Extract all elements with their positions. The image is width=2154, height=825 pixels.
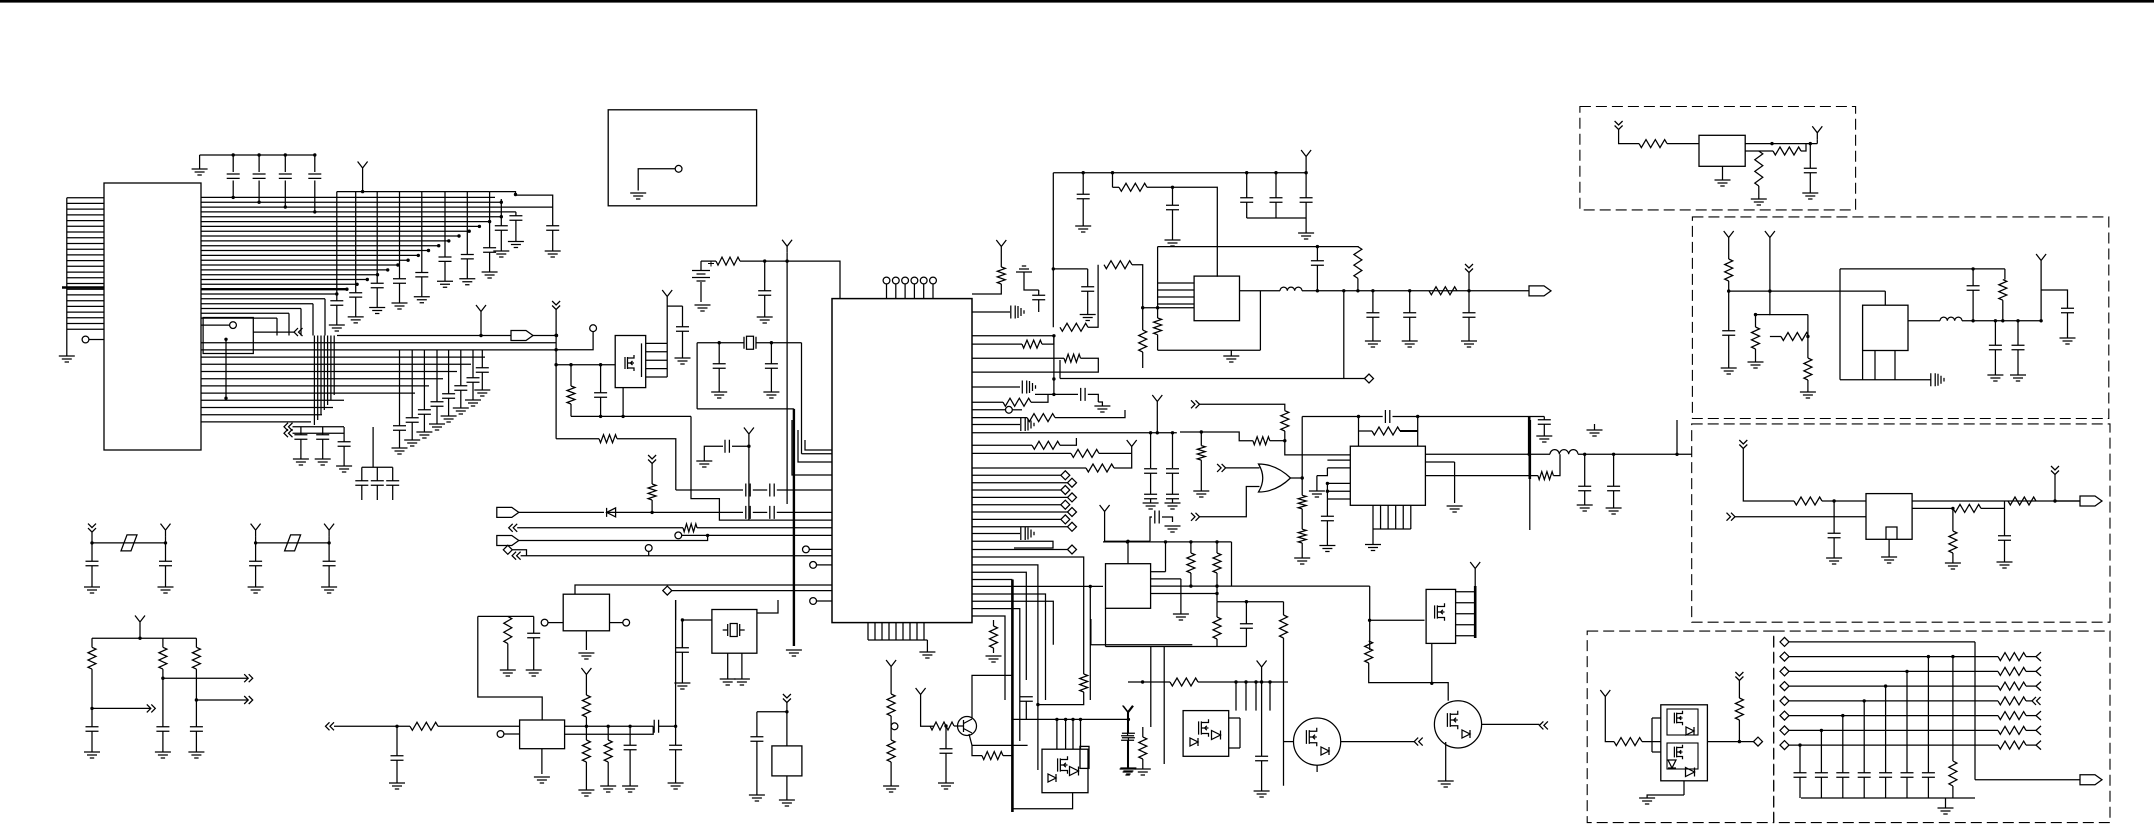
- wire: [1683, 781, 1685, 795]
- node diamond: [1061, 486, 1070, 495]
- capacitor C21: [454, 386, 467, 390]
- wire: [1369, 621, 1371, 650]
- ground: [1319, 546, 1335, 552]
- wire: [607, 762, 609, 786]
- wire: [585, 681, 587, 695]
- ground: [474, 390, 490, 396]
- wire: [1799, 745, 1801, 772]
- wire: [1885, 686, 1887, 772]
- wire: [165, 543, 167, 561]
- wire: [399, 284, 401, 304]
- wire: [1927, 778, 1929, 799]
- wire: [585, 717, 587, 726]
- ground: [534, 777, 550, 783]
- wire: [890, 716, 892, 726]
- wire: [448, 399, 450, 417]
- capacitor C12: [483, 248, 496, 252]
- resistor R51: [88, 647, 96, 669]
- wire: [993, 648, 995, 653]
- wire: [1807, 380, 1809, 392]
- ground: [1606, 508, 1622, 514]
- wire: [288, 313, 290, 335]
- ground: [1721, 368, 1737, 374]
- connector chevron: [2032, 697, 2041, 705]
- wire: [972, 609, 1020, 741]
- ferrite bead FB1: [121, 535, 137, 551]
- pin circle: [920, 277, 927, 284]
- capacitor C45: [1144, 469, 1157, 473]
- pin circle: [82, 336, 89, 343]
- wire: [1445, 742, 1447, 748]
- ground: [1223, 356, 1239, 362]
- wire: [890, 726, 892, 740]
- crystal Y2: [723, 624, 745, 637]
- pin circle: [230, 322, 237, 329]
- wire: [1647, 795, 1684, 798]
- wire: [293, 426, 345, 428]
- wire: [256, 542, 330, 544]
- node diamond: [1780, 726, 1789, 735]
- wire: [1974, 642, 1976, 780]
- resistor R7: [1022, 340, 1042, 348]
- wire: [1652, 718, 1661, 752]
- wire: [1369, 663, 1449, 701]
- wire: [748, 441, 750, 521]
- connector chevron: [284, 429, 293, 437]
- wire: [1128, 681, 1170, 683]
- wire: [67, 202, 104, 204]
- wire: [1327, 498, 1350, 500]
- wire: [1425, 475, 1538, 477]
- power chevron: [783, 694, 791, 703]
- pin circle: [675, 165, 682, 172]
- resistor R65: [1139, 737, 1147, 759]
- capacitor C67: [1607, 486, 1620, 490]
- off-page connector: [2080, 496, 2102, 506]
- wire: [890, 673, 892, 694]
- wire: [336, 306, 338, 326]
- wire: [672, 590, 832, 592]
- capacitor C87: [323, 561, 336, 565]
- wire: [993, 620, 995, 626]
- wire: [1150, 433, 1152, 468]
- ground: [1365, 545, 1381, 551]
- power flag: [1127, 440, 1137, 453]
- ground: [293, 459, 309, 465]
- wire: [478, 615, 534, 617]
- wire: [1172, 187, 1174, 205]
- wire: [1217, 601, 1284, 603]
- wire: [1728, 291, 1730, 330]
- capacitor C39: [746, 506, 750, 519]
- wire: [1216, 542, 1218, 553]
- wire: [1327, 467, 1350, 469]
- wire: [585, 726, 587, 740]
- wire: [67, 305, 104, 307]
- ground: [1120, 769, 1136, 775]
- wire: [1327, 459, 1350, 461]
- connector arrow: [2036, 652, 2041, 661]
- wire: [703, 458, 705, 461]
- wire: [1456, 602, 1476, 604]
- wire: [1255, 682, 1257, 711]
- ground: [1461, 341, 1477, 347]
- wire: [1087, 269, 1089, 287]
- codec U6: [1106, 564, 1151, 609]
- capacitor C84: [86, 561, 99, 565]
- wire: [2040, 267, 2042, 321]
- ground: [1826, 558, 1842, 564]
- wire: [201, 421, 311, 423]
- wire: [67, 288, 104, 290]
- wire: [1261, 674, 1263, 683]
- wire: [1143, 307, 1194, 309]
- wire: [162, 732, 164, 753]
- wire: [1326, 521, 1328, 546]
- wire: [1738, 720, 1740, 742]
- wire: [1190, 542, 1192, 553]
- wire: [1369, 586, 1371, 621]
- power flag: [324, 524, 334, 537]
- wire: [328, 566, 330, 587]
- wire: [1886, 527, 1897, 539]
- wire: [1981, 507, 2005, 509]
- wire: [396, 761, 398, 784]
- wire: [258, 155, 260, 172]
- wire: [2041, 290, 2067, 308]
- wire: [1127, 719, 1129, 733]
- wire: [972, 358, 1098, 372]
- connector arrow: [2036, 682, 2041, 691]
- resistor R60: [930, 722, 954, 730]
- wire: [1200, 432, 1202, 446]
- capacitor C26: [338, 442, 351, 446]
- ground: [1135, 769, 1151, 775]
- capacitor C30: [758, 291, 771, 295]
- wire: [421, 192, 423, 273]
- ground: [1938, 808, 1954, 814]
- wire: [1269, 682, 1271, 711]
- wire: [1042, 336, 1054, 344]
- wire: [67, 277, 104, 279]
- ground: [668, 783, 684, 789]
- capacitor C77: [1922, 773, 1935, 777]
- wire: [681, 620, 683, 648]
- wire: [1247, 217, 1306, 219]
- wire: [396, 726, 398, 755]
- diode D6: [1070, 767, 1079, 776]
- ground: [545, 251, 561, 257]
- wire: [1755, 349, 1757, 362]
- wire: [1816, 139, 1818, 143]
- off-page connector: [497, 536, 519, 546]
- wire: [1728, 281, 1730, 291]
- ground: [600, 786, 616, 792]
- pin circle: [810, 598, 817, 605]
- capacitor C93: [654, 720, 658, 733]
- wire: [201, 392, 415, 394]
- wire: [1003, 755, 1013, 757]
- wire: [1584, 491, 1586, 505]
- wire: [1789, 641, 1975, 643]
- wire: [2026, 656, 2036, 658]
- wire: [1053, 172, 1306, 174]
- wire: [1425, 453, 1550, 455]
- wire: [327, 336, 329, 406]
- wire: [1172, 210, 1174, 240]
- wire: [708, 534, 832, 536]
- wire: [1200, 487, 1260, 517]
- zener diode D3: [1668, 760, 1676, 768]
- connector box: [203, 318, 253, 354]
- power flag: [996, 240, 1006, 253]
- wire: [1676, 420, 1678, 454]
- wire: [972, 549, 1068, 551]
- or-gate U8: [1259, 464, 1291, 492]
- power flag: [1724, 231, 1734, 244]
- ground: [1945, 563, 1961, 569]
- wire: [1789, 685, 1998, 687]
- wire: [646, 359, 668, 361]
- crystal module U3: [712, 610, 757, 654]
- fet cell: [1667, 709, 1698, 735]
- mosfet Q5: [1058, 756, 1068, 774]
- node diamond: [1365, 374, 1374, 383]
- wire: [195, 732, 197, 753]
- capacitor C86: [249, 561, 262, 565]
- wire: [201, 312, 289, 314]
- capacitor C81: [1836, 773, 1849, 777]
- capacitor C7: [371, 283, 384, 287]
- wire: [1284, 741, 1294, 743]
- ground: [482, 272, 498, 278]
- connector arrow: [2036, 711, 2041, 720]
- wire: [923, 284, 925, 299]
- capacitor C33: [725, 440, 729, 453]
- wire: [200, 154, 316, 156]
- wire: [1994, 321, 1996, 345]
- ground: [1639, 798, 1655, 804]
- wire: [1270, 440, 1285, 442]
- zener diode D2: [1686, 727, 1694, 735]
- wire: [1370, 619, 1425, 621]
- capacitor C54: [1270, 198, 1283, 202]
- wire: [1072, 719, 1074, 749]
- wire: [1962, 320, 2041, 322]
- wire: [642, 343, 668, 377]
- node diamond: [1754, 737, 1763, 746]
- wire: [480, 318, 482, 336]
- capacitor C55: [1300, 198, 1313, 202]
- wire: [913, 284, 915, 299]
- wire: [1012, 793, 1072, 809]
- connector chevron: [244, 696, 253, 704]
- ground: [1028, 419, 1034, 431]
- wire: [972, 541, 1053, 548]
- off-page connector: [2080, 775, 2102, 785]
- wire: [1445, 748, 1447, 781]
- ground: [696, 461, 712, 467]
- wire: [691, 416, 832, 520]
- capacitor C57: [1032, 295, 1045, 299]
- wire: [753, 511, 767, 513]
- wire: [343, 427, 345, 442]
- node diamond: [1068, 545, 1077, 554]
- wire: [1809, 144, 1811, 168]
- wire: [1994, 350, 1996, 375]
- wire: [504, 733, 520, 735]
- wire: [1180, 432, 1253, 441]
- wire: [195, 638, 197, 647]
- wire: [67, 300, 104, 302]
- wire: [201, 349, 557, 351]
- wire: [1038, 300, 1040, 312]
- wire: [1425, 461, 1454, 463]
- wire: [585, 762, 587, 790]
- wire: [195, 669, 197, 726]
- wire: [1226, 467, 1260, 469]
- wire: [436, 407, 438, 425]
- ground: [1997, 562, 2013, 568]
- power flag: [1301, 150, 1311, 163]
- resistor R41: [1614, 738, 1642, 746]
- wire: [972, 452, 1071, 454]
- capacitor C10: [439, 257, 452, 261]
- wire: [1229, 718, 1240, 748]
- wire: [201, 211, 516, 213]
- pin circle: [1006, 406, 1013, 413]
- ground: [465, 400, 481, 406]
- wire: [91, 638, 93, 647]
- capacitor C90: [190, 727, 203, 731]
- wire: [201, 378, 443, 380]
- transistor Q circled: [1294, 718, 1341, 765]
- ground: [369, 308, 385, 314]
- capacitor C36: [676, 648, 689, 652]
- wire: [201, 259, 408, 261]
- ground: [622, 786, 638, 792]
- wire: [448, 350, 450, 394]
- zener diode D10: [1321, 747, 1329, 755]
- wire: [466, 192, 468, 255]
- resistor R42: [1735, 698, 1743, 720]
- wire: [1409, 318, 1411, 342]
- ground: [1715, 180, 1731, 186]
- wire: [1035, 393, 1078, 395]
- ground: [459, 279, 475, 285]
- ground: [1751, 199, 1767, 205]
- jack U5: [563, 594, 609, 631]
- wire: [1317, 468, 1328, 476]
- wire: [646, 376, 668, 378]
- node diamond: [1061, 471, 1070, 480]
- wire: [1789, 729, 1998, 731]
- wire: [1543, 425, 1545, 437]
- ground: [1016, 266, 1032, 272]
- pin circle: [623, 619, 630, 626]
- wire: [786, 253, 788, 504]
- capacitor C71: [1989, 345, 2002, 349]
- ground: [1080, 315, 1096, 321]
- ground: [1938, 374, 1944, 386]
- resistor R36: [1999, 280, 2007, 301]
- wire: [2002, 300, 2004, 321]
- wire: [490, 192, 553, 226]
- wire: [1142, 727, 1144, 737]
- wire: [1235, 682, 1237, 711]
- node diamond: [1061, 515, 1070, 524]
- ground: [441, 416, 457, 422]
- wire: [1912, 500, 2081, 502]
- wire: [67, 260, 104, 262]
- wire: [1151, 585, 1232, 587]
- wire: [355, 192, 357, 293]
- wire: [67, 317, 104, 319]
- wire: [1952, 553, 1954, 563]
- wire: [1409, 291, 1411, 313]
- wire: [1103, 541, 1232, 543]
- ground: [986, 656, 1002, 662]
- wire: [201, 250, 429, 252]
- connector chevron: [147, 704, 156, 712]
- wire: [1216, 639, 1218, 647]
- wire: [556, 438, 599, 440]
- resistor R27: [1372, 427, 1400, 435]
- node diamond: [1780, 741, 1789, 750]
- capacitor C43: [1081, 388, 1085, 401]
- wire: [324, 299, 326, 336]
- ground: [674, 683, 690, 689]
- dashed enclosure: [608, 110, 756, 206]
- wire: [1157, 247, 1159, 318]
- wire: [2004, 269, 2006, 280]
- wire: [1302, 416, 1383, 418]
- wire: [904, 284, 906, 299]
- wire: [972, 474, 1061, 476]
- buck U U11: [1863, 305, 1908, 350]
- wire: [67, 271, 104, 273]
- capacitor C92: [624, 745, 637, 749]
- power flag: [662, 290, 672, 303]
- bus wire: [793, 409, 795, 646]
- capacitor C56: [1081, 287, 1094, 291]
- wire: [1275, 173, 1277, 198]
- wire: [1912, 507, 1940, 509]
- wire: [67, 283, 104, 285]
- connector chevron: [244, 674, 253, 682]
- ground: [1881, 557, 1897, 563]
- wire: [1275, 203, 1277, 219]
- wire: [675, 600, 677, 620]
- ground: [1173, 614, 1189, 620]
- ground: [321, 587, 337, 593]
- capacitor C94: [669, 745, 682, 749]
- wire: [1468, 273, 1470, 291]
- capacitor C42: [1022, 381, 1026, 394]
- wire: [328, 543, 330, 561]
- wire: [600, 398, 602, 417]
- wire: [1291, 477, 1303, 479]
- wire: [460, 391, 462, 409]
- wire: [1372, 529, 1374, 545]
- connector chevron: [509, 524, 518, 532]
- wire: [1216, 573, 1218, 602]
- ground: [919, 652, 935, 658]
- wire: [1789, 670, 1998, 672]
- power flag: [744, 428, 754, 441]
- wire: [317, 336, 319, 421]
- capacitor C49: [1021, 527, 1025, 540]
